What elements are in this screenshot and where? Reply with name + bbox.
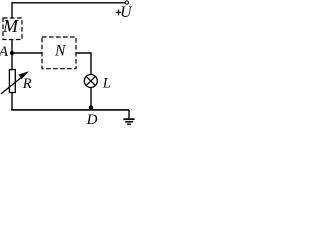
node A junction dot	[10, 51, 14, 55]
svg-text:R: R	[22, 76, 32, 92]
resistor arrow line	[1, 77, 22, 94]
svg-text:A: A	[0, 44, 9, 60]
top supply wire	[12, 2, 125, 4]
svg-text:M: M	[2, 16, 19, 36]
label +U	[116, 10, 122, 16]
wire lamp to node D	[90, 88, 92, 110]
box N (dashed)	[42, 37, 76, 69]
terminal +U circle	[125, 1, 128, 4]
resistor arrow head	[18, 71, 28, 79]
svg-text:D: D	[86, 112, 98, 127]
svg-text:U: U	[120, 4, 133, 21]
ground stub wire	[128, 110, 130, 119]
wire A to N	[12, 52, 42, 54]
bottom rail wire	[11, 109, 129, 111]
svg-text:L: L	[102, 76, 111, 92]
wire resistor to bottom rail	[11, 93, 13, 111]
wire top-left down to M	[11, 2, 13, 18]
lamp X cross	[86, 76, 95, 85]
box M (dashed)	[3, 18, 22, 40]
lamp L circle	[84, 75, 97, 88]
wire M to resistor through node A	[11, 40, 13, 71]
node D junction dot	[89, 105, 93, 109]
wire N to lamp	[76, 53, 91, 74]
resistor R body	[9, 70, 15, 93]
svg-text:N: N	[54, 43, 67, 60]
ground symbol bars	[123, 118, 134, 120]
